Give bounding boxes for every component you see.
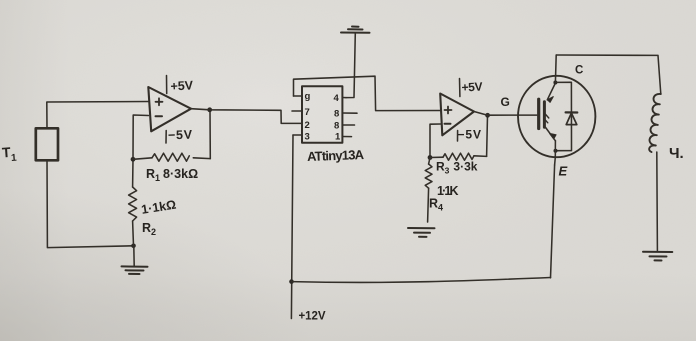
junction node on +12V rail: [289, 279, 294, 284]
Q1 channel bar: [543, 102, 546, 128]
svg-text:E: E: [559, 164, 568, 179]
wire T1 bottom to ground node: [47, 160, 134, 248]
junction node R3/R4: [428, 155, 433, 160]
svg-text:8: 8: [334, 109, 339, 120]
svg-text:8: 8: [334, 121, 339, 132]
power +5V stub U3: [459, 79, 461, 97]
op-amp U1: [148, 87, 191, 131]
wire +12V vertical from IC pin: [291, 135, 293, 319]
label R2 value 1.1kOhm: [140, 198, 177, 237]
IC pin stubs right: [342, 97, 346, 99]
wire emitter down: [554, 141, 557, 165]
label R4 value: [429, 184, 459, 213]
svg-text:2: 2: [305, 120, 310, 131]
wire coil to ground: [656, 152, 659, 251]
label T1: [1, 144, 17, 165]
svg-text:G: G: [501, 95, 510, 109]
label R1 value: [146, 167, 198, 183]
svg-text:1: 1: [335, 132, 341, 143]
wire collector to coil (top run): [556, 55, 661, 94]
resistor R1 (8.3k) horizontal feedback: [133, 153, 210, 161]
diode D1 symbol: [566, 112, 578, 124]
IC pin stubs left: [294, 95, 303, 97]
label G gate: [501, 95, 510, 109]
label C: [575, 65, 583, 77]
svg-text:7: 7: [305, 107, 310, 118]
svg-text:1·1K: 1·1K: [437, 184, 459, 198]
inductor L1 coil: [649, 94, 661, 152]
svg-text:R33·3k: R33·3k: [436, 160, 478, 176]
resistor R3 (3.3k) horizontal: [430, 153, 487, 160]
ground (below R4): [408, 228, 435, 237]
transistor Q1 IGBT circle: [518, 76, 595, 157]
ground (below coil): [643, 252, 672, 261]
Q1 middle marks: [544, 114, 548, 123]
svg-text:Ч.: Ч.: [669, 145, 684, 162]
power -5V stub U3: [457, 131, 459, 142]
Q1 emitter diagonal with arrow: [546, 128, 557, 141]
Q1 collector diagonal with arrow: [547, 83, 555, 102]
label ATtiny13A: [307, 147, 365, 164]
sensor T1 box: [36, 128, 58, 160]
svg-text:C: C: [575, 65, 583, 77]
wire T1 top to op-amp U1 + input: [47, 102, 149, 129]
Q1 gate bar: [537, 99, 540, 128]
wire U1 output to IC pin: [191, 109, 302, 124]
wire feedback vertical to output: [209, 110, 211, 159]
resistor R2 (1.1k) vertical: [129, 159, 137, 246]
svg-text:4: 4: [334, 93, 340, 104]
svg-text:3: 3: [305, 132, 310, 143]
wire R3 to output node: [486, 115, 489, 156]
node U1 output: [207, 107, 212, 112]
label L: [669, 145, 684, 162]
wire U3 output to gate: [474, 112, 537, 116]
wire U3 inverting input: [430, 124, 441, 158]
power +5V stub U1: [166, 76, 168, 94]
svg-text:+5V: +5V: [461, 79, 483, 94]
svg-text:ATtiny13A: ATtiny13A: [307, 147, 365, 164]
ground (top, at IC): [341, 27, 370, 98]
op-amp U3: [440, 94, 474, 136]
junction node (inverting input / R1 / R2): [131, 157, 136, 162]
wire U1 inverting input: [133, 115, 149, 159]
node collector top: [553, 81, 557, 85]
svg-text:R18·3kΩ: R18·3kΩ: [146, 167, 198, 183]
junction node at ground: [131, 244, 136, 249]
resistor R4 (1.1k) vertical: [425, 158, 432, 223]
svg-text:+12V: +12V: [299, 311, 326, 323]
power -5V stub U1: [165, 131, 167, 144]
svg-text:−5V: −5V: [458, 128, 482, 142]
label +12V: [299, 311, 326, 323]
wire emitter to +12V rail: [551, 165, 555, 278]
label R3 value: [436, 160, 478, 176]
label E: [559, 164, 568, 179]
node U3 output: [485, 113, 490, 118]
svg-text:g: g: [305, 91, 311, 102]
svg-text:−5V: −5V: [168, 128, 193, 143]
IC U2 ATtiny13A box: [302, 86, 342, 142]
wire IC pin1 to op-amp U3 + input (top bracket): [294, 76, 441, 110]
ground (left, below R2): [122, 246, 148, 274]
svg-text:+5V: +5V: [170, 78, 194, 93]
IC pin labels: [305, 91, 342, 143]
diode D1 branch: [555, 82, 571, 150]
wire collector up: [554, 55, 557, 83]
node emitter bottom: [554, 149, 558, 153]
wire +12V rail to emitter: [292, 278, 551, 283]
